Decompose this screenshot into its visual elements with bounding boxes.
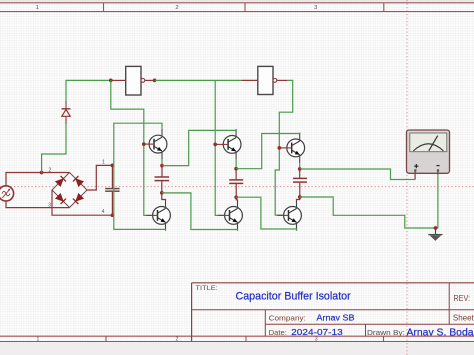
transistor Q3 xyxy=(281,133,305,164)
wire U2 output to Q3 and Q6 bases xyxy=(275,80,293,215)
wire C1 bottom to Q4 collector xyxy=(162,193,166,201)
wire AC top to node B xyxy=(6,173,42,186)
frame top column number 3 xyxy=(314,5,317,11)
wire U2 input pin xyxy=(242,79,258,81)
frame top column number 2 xyxy=(175,5,178,11)
wire C2 bottom to Q5 collector xyxy=(236,197,237,200)
wire U1 output to Q2 and Q5 bases xyxy=(215,80,225,215)
capacitor C1 xyxy=(155,177,170,181)
junction Q2 base xyxy=(213,143,217,147)
bridge pin label 3 xyxy=(48,202,51,208)
junction C1 bottom xyxy=(160,191,164,195)
svg-text:Date:: Date: xyxy=(269,328,287,337)
title block title text xyxy=(236,290,351,302)
svg-text:REV:: REV: xyxy=(454,293,471,303)
bridge diode bottom-right xyxy=(73,193,84,204)
junction ground node xyxy=(434,226,438,230)
frame top column number 1 xyxy=(36,5,39,11)
frame bottom border band xyxy=(0,336,474,341)
fold mark vertical centre line xyxy=(406,0,408,355)
title block Sheet label xyxy=(453,313,474,322)
wire AC bottom to bridge pin 3 xyxy=(6,201,70,208)
frame bottom column number 1 xyxy=(37,336,40,342)
wire Q1 emitter to node xyxy=(161,159,163,165)
capacitor C3 xyxy=(293,178,307,182)
junction Q3 emitter xyxy=(298,167,302,171)
capacitor C2 xyxy=(229,180,243,184)
frame top border band xyxy=(0,3,474,12)
wire C1 bottom to Q5 emitter xyxy=(162,193,238,231)
AC source G1 xyxy=(0,186,14,201)
wire C1 bottom plate to node xyxy=(161,181,163,193)
wire node B to bridge pin 2 xyxy=(42,172,70,174)
title block company name xyxy=(317,314,355,323)
title block Date label xyxy=(269,328,287,337)
svg-text:Arnav SB: Arnav SB xyxy=(317,314,355,323)
bridge pin label 2 xyxy=(49,167,52,173)
wire meter positive pin xyxy=(414,172,416,180)
wire Q2 emitter to Q3 collector xyxy=(236,133,300,169)
bridge pin label 4 xyxy=(102,209,105,215)
wire node to C3 top plate xyxy=(299,169,301,178)
frame bottom column number 3 xyxy=(315,336,318,342)
svg-text:4: 4 xyxy=(102,209,105,215)
wire U1 output to U2 input xyxy=(155,79,242,81)
junction C2 bottom xyxy=(234,195,238,199)
junction U1 output xyxy=(153,79,157,83)
wire node A to U1 input pin xyxy=(111,79,126,81)
svg-text:2024-07-13: 2024-07-13 xyxy=(291,327,343,337)
junction Q2 emitter xyxy=(234,167,238,171)
title block REV label xyxy=(454,293,471,303)
wire bridge pin 1 to node C1 top xyxy=(87,165,112,190)
wire node to C1 top plate xyxy=(161,166,163,177)
svg-text:Arnav S. Bodak: Arnav S. Bodak xyxy=(407,328,474,339)
buffer U1 xyxy=(126,66,145,95)
title block TITLE label xyxy=(196,285,218,292)
svg-text:2: 2 xyxy=(176,336,179,342)
svg-text:3: 3 xyxy=(315,336,318,342)
wire C3 bottom to ground node xyxy=(300,197,436,228)
wire U2 output pin xyxy=(277,79,287,81)
wire Q3 emitter to meter positive xyxy=(300,169,415,180)
buffer U2 xyxy=(258,66,277,94)
junction node B xyxy=(40,171,44,175)
svg-text:3: 3 xyxy=(48,202,51,208)
meter M1 xyxy=(407,130,450,173)
svg-text:TITLE:: TITLE: xyxy=(196,285,218,292)
svg-text:Company:: Company: xyxy=(269,314,306,323)
svg-text:2: 2 xyxy=(175,5,178,11)
wire C2 bottom plate to node xyxy=(235,184,237,197)
svg-text:1: 1 xyxy=(36,5,39,11)
wire C4 bottom plate to node xyxy=(111,192,113,216)
wire Q1 emitter to Q2 collector xyxy=(162,129,236,166)
junction Q1 emitter xyxy=(160,164,164,168)
wire C3 bottom plate to node xyxy=(299,183,301,197)
wire diode D1 bottom to node B xyxy=(42,124,66,173)
wire node to C2 top plate xyxy=(235,169,237,180)
svg-text:Capacitor Buffer Isolator: Capacitor Buffer Isolator xyxy=(236,290,351,302)
title block drawn by name xyxy=(407,328,474,339)
svg-text:3: 3 xyxy=(314,5,317,11)
wire C3 bottom to Q6 collector xyxy=(297,197,300,201)
svg-text:1: 1 xyxy=(37,336,40,342)
junction Q3 base xyxy=(277,146,281,150)
svg-text:2: 2 xyxy=(49,167,52,173)
wire node to C4 top plate xyxy=(111,165,113,188)
transistor Q1 xyxy=(143,129,167,160)
bridge diode bottom-left xyxy=(55,193,66,204)
capacitor C4 reservoir xyxy=(105,189,119,192)
wire Q2 emitter to node xyxy=(235,160,237,169)
diode D1 xyxy=(62,101,71,124)
svg-text:1: 1 xyxy=(102,160,105,166)
svg-text:Drawn By:: Drawn By: xyxy=(367,328,405,337)
transistor Q4 xyxy=(146,200,170,231)
frame bottom column number 2 xyxy=(176,336,179,342)
junction main cap bottom xyxy=(111,213,115,217)
wire Q3 emitter to node xyxy=(299,163,301,169)
wire meter negative to ground node xyxy=(436,175,438,229)
wire diode D1 top to node A xyxy=(66,80,111,101)
junction main cap top xyxy=(111,164,115,168)
wire node to bridge pin 4 xyxy=(52,190,112,215)
junction node A xyxy=(109,79,113,83)
transistor Q6 xyxy=(277,200,301,231)
junction C3 bottom xyxy=(298,195,302,199)
bridge diode top-left xyxy=(55,176,66,187)
wire Q1 collector loop to Q4 emitter xyxy=(114,123,166,231)
transistor Q5 xyxy=(218,200,242,231)
transistor Q2 xyxy=(217,129,241,160)
wire C2 bottom to Q6 emitter xyxy=(236,197,296,231)
wire U1 output pin xyxy=(145,79,155,81)
bridge diode top-right xyxy=(73,176,84,187)
title block Drawn By label xyxy=(367,328,405,337)
wire meter negative pin xyxy=(437,172,439,175)
ground symbol xyxy=(428,228,442,241)
junction Q1 base xyxy=(142,142,146,146)
bridge pin label 1 xyxy=(102,160,105,166)
wire node A to Q1 and Q4 bases xyxy=(111,80,154,215)
title block date value xyxy=(291,327,343,337)
fold mark horizontal centre line xyxy=(0,186,474,188)
title block frame xyxy=(192,283,474,342)
title block Company label xyxy=(269,314,306,323)
svg-text:Sheet:: Sheet: xyxy=(453,313,474,322)
bridge rectifier D2 outline xyxy=(52,173,87,208)
